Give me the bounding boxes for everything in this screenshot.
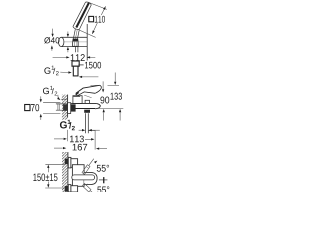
body cylinder (top view) (84, 172, 97, 184)
wall reference line (top view) (86, 24, 88, 61)
wall line (bottom view) (67, 152, 69, 192)
wall hatch (middle view) (62, 95, 68, 120)
label 55 bottom (97, 186, 109, 193)
shower handle (73, 29, 75, 39)
shower hose upper (75, 46, 78, 52)
leader G1/2 top (60, 71, 68, 73)
label 55 top (97, 165, 109, 172)
bottom union in-wall block (65, 186, 68, 192)
holder clamp dark top (73, 39, 79, 41)
label 112 (71, 54, 85, 61)
label 1500 with dash (78, 64, 83, 66)
holder end ellipse (59, 37, 64, 46)
inlet pipe stub (56, 104, 68, 110)
top union in-wall block (65, 159, 68, 165)
escutcheon (68, 103, 71, 114)
label square70 symbol (25, 105, 30, 111)
cartridge top dark edge (73, 95, 80, 97)
133 upper arrow (down to ref line) (114, 73, 116, 82)
wall line (middle view) (67, 95, 69, 118)
mixer body (side view) (71, 103, 96, 108)
133 lower arrow (119, 112, 121, 120)
inlet union nut (in wall) (63, 105, 68, 111)
shower head face front edge (73, 2, 86, 27)
leader arrow for hose (1500) (81, 76, 99, 78)
dim 150+-15 ext lines (45, 164, 64, 188)
dim 113/167 left ext line (66, 130, 68, 141)
phantom swivel union rotated 55deg (upper) (82, 165, 90, 175)
label G1/2 top (44, 66, 58, 76)
dimension d40 arrows at cylinder (67, 32, 69, 35)
label G1/2 bottom (bold) (60, 120, 75, 130)
outlet nipple nut (84, 110, 90, 113)
holder centerline (58, 41, 87, 43)
bottom union nut (68, 185, 71, 192)
hose coupling nut (72, 61, 79, 66)
shower head top cap (86, 2, 92, 5)
label diameter 40 (44, 37, 59, 43)
shower head bottom cap (73, 27, 79, 30)
top union nut (68, 157, 71, 168)
diverter button on top (85, 100, 89, 103)
dim 113 (54, 138, 63, 140)
label 110 (95, 16, 105, 23)
55 deg upper leader arrow (89, 159, 94, 166)
holder clamp body (73, 41, 79, 46)
lever left end dark wedge (76, 92, 79, 95)
dim 70 arrows (40, 96, 42, 99)
label 133 (111, 93, 122, 100)
dim 167 (54, 147, 63, 149)
spout end cap (95, 103, 100, 108)
dim 113/167 right ext line (94, 130, 96, 149)
wall hatch (bottom view) (62, 152, 68, 192)
leader G1/2 middle (57, 95, 59, 98)
pipe top connector line (88, 130, 95, 132)
lever handle (side view) (76, 85, 100, 93)
label 70 (31, 104, 39, 111)
phantom swivel union rotated 55deg (lower) (82, 183, 91, 192)
lever stub pointing at viewer (99, 179, 108, 181)
dim 70 ext lines (43, 103, 60, 114)
dim 150 arrows (47, 167, 49, 172)
dimension d40 leader arrow above text (52, 29, 54, 35)
pipe diameter arrows (79, 129, 82, 131)
dimension square110 dim line + arrows (92, 6, 105, 34)
label square110 square symbol (89, 16, 94, 21)
55 deg lower leader arrow (91, 191, 94, 193)
cartridge housing (73, 96, 82, 104)
label 150+-15 (33, 173, 57, 181)
shower head front face (hatched dark band) (76, 3, 89, 28)
outlet pipe down (86, 113, 89, 133)
body block between unions (72, 165, 84, 187)
90 upper arrow (down to lever tip) (102, 81, 104, 89)
cartridge pill inside (72, 175, 95, 180)
dimension 112 dim line (53, 56, 96, 58)
shower head back edge (79, 5, 91, 30)
handle lines through clamp (75, 41, 77, 46)
dimension square110 ext line top (89, 3, 107, 10)
90 lower arrow (103, 112, 105, 120)
label 90 (100, 96, 109, 103)
cartridge dome line (84, 95, 91, 98)
dimension square110 ext line bottom (79, 30, 96, 38)
wall holder cylinder (61, 37, 87, 46)
label G1/2 middle (43, 86, 57, 96)
ext line C (bottom ref) (96, 108, 123, 110)
body-wall coupling block (71, 104, 76, 111)
ext line A (upper ref, with gap) (91, 84, 120, 86)
